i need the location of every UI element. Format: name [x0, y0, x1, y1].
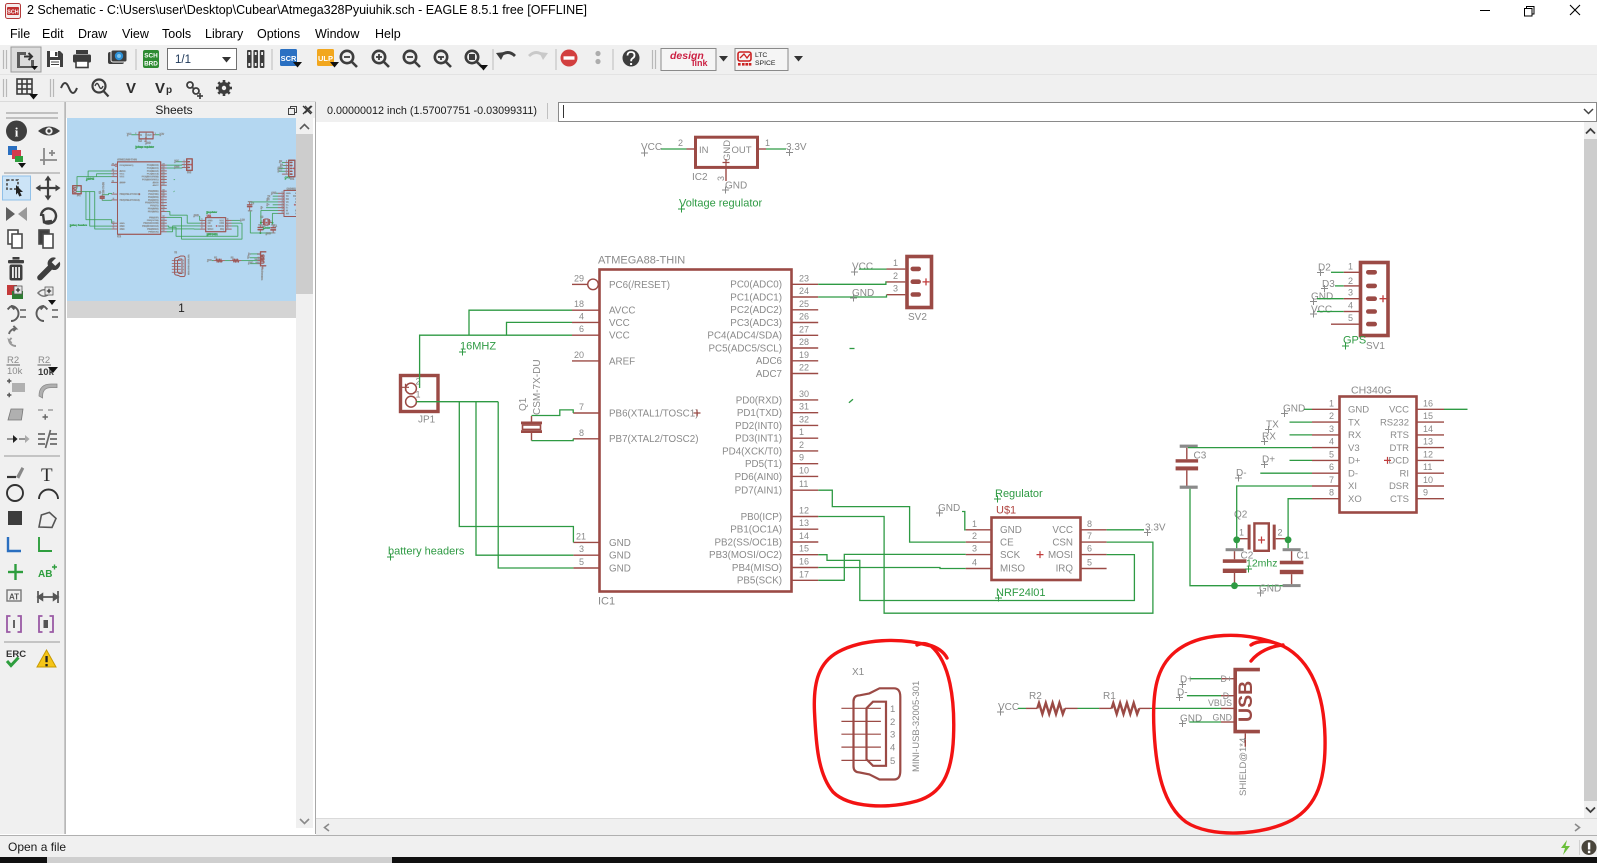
circle tool: [7, 485, 23, 501]
svg-text:V: V: [126, 80, 136, 97]
ERC: [6, 649, 26, 666]
attribute: [7, 590, 21, 602]
window buttons: [1460, 0, 1597, 23]
svg-text:LTC: LTC: [755, 52, 767, 59]
image/camera: [108, 52, 124, 64]
errors warning: [37, 650, 56, 667]
svg-text:AB: AB: [38, 569, 52, 580]
svg-text:p: p: [166, 85, 172, 96]
coord mark: [40, 148, 57, 165]
copy group: [39, 230, 53, 248]
junction tool: [8, 564, 23, 580]
svg-text:AT: AT: [9, 593, 19, 602]
annotation circle around USB: [1154, 635, 1325, 833]
split: [38, 430, 57, 448]
arc tool: [39, 490, 58, 499]
open button (pressed): [11, 47, 41, 72]
delete: [8, 257, 24, 281]
stop: [561, 50, 578, 67]
mirror: [6, 207, 27, 221]
svg-text:V: V: [155, 80, 165, 97]
zoom icons: [341, 51, 482, 67]
svg-text:BRD: BRD: [144, 61, 158, 68]
ULP: [317, 49, 334, 66]
layers: [247, 50, 264, 68]
svg-text:SCH: SCH: [7, 10, 18, 16]
dimension: [38, 591, 58, 603]
LTC SPICE: [735, 49, 788, 71]
label tool: [38, 565, 57, 581]
svg-text:T: T: [41, 465, 53, 486]
slant rect: [8, 409, 23, 420]
net tool: [39, 537, 52, 551]
svg-text:ULP: ULP: [318, 54, 333, 63]
thumbnail: [67, 118, 296, 301]
svg-text:SCH: SCH: [144, 53, 158, 60]
add part: [7, 285, 23, 299]
help: [623, 50, 640, 67]
magnifier sine: [93, 80, 106, 93]
panel close X left of coordinate bar: [301, 104, 313, 116]
SCR: [280, 49, 297, 66]
pinswap: [7, 435, 30, 443]
invoke: [38, 287, 53, 296]
gear: [216, 80, 232, 96]
name: [7, 355, 23, 377]
panel/canvas separator: [315, 102, 316, 834]
move: [36, 176, 61, 201]
copy: [8, 230, 22, 248]
bus tool: [8, 537, 21, 551]
rotate: [41, 209, 56, 224]
port2: [39, 616, 53, 632]
sep: [135, 49, 137, 70]
SCH/BRD: [143, 50, 159, 68]
miter: [39, 384, 57, 398]
grid icon: [17, 79, 32, 94]
canvas horizontal scrollbar: [316, 818, 1597, 836]
save: [47, 51, 63, 67]
canvas vertical scrollbar: [1584, 122, 1597, 818]
svg-text:link: link: [692, 58, 708, 68]
info: [6, 121, 27, 142]
annotation circle around X1: [814, 640, 953, 805]
svg-text:1/1: 1/1: [175, 54, 191, 66]
polygon tool: [39, 512, 56, 527]
svg-text:i: i: [15, 125, 19, 140]
panel scrollbar: [296, 118, 313, 828]
svg-text:SPICE: SPICE: [755, 60, 776, 67]
app icon: [5, 3, 21, 19]
eye: [38, 127, 60, 136]
value: [38, 355, 55, 378]
svg-text:10k: 10k: [7, 366, 23, 377]
wire: [7, 467, 24, 479]
svg-text:SCR: SCR: [281, 54, 297, 63]
dash plus: [38, 410, 53, 420]
design link: [661, 49, 716, 71]
gateswap pair: [8, 306, 26, 321]
wrench: [37, 258, 60, 281]
1/1 dropdown: [168, 49, 237, 70]
print: [76, 50, 88, 54]
smash: [7, 379, 25, 397]
undo / redo: [500, 53, 515, 57]
rect tool: [8, 511, 22, 525]
sine: [61, 83, 77, 93]
layers: [8, 146, 26, 168]
select highlighted: [3, 176, 31, 200]
link+: [187, 82, 199, 94]
port: [7, 616, 21, 632]
